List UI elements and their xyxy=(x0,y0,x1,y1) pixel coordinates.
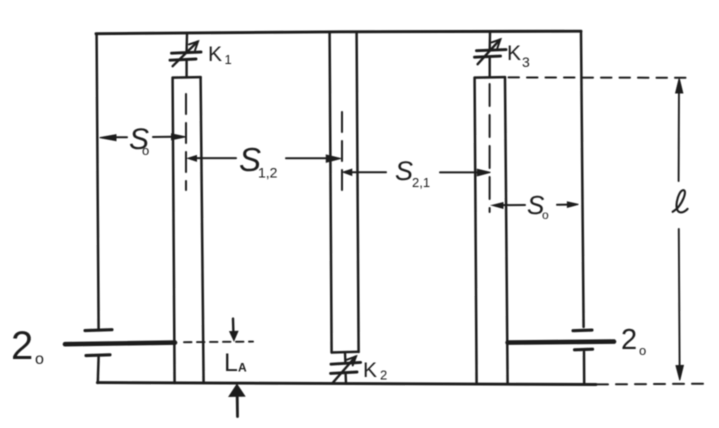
input tap dashed line through resonator 1 xyxy=(184,341,253,344)
svg-text:K: K xyxy=(507,42,521,65)
S0 right label xyxy=(527,190,549,222)
svg-text:o: o xyxy=(35,351,44,368)
dimension S2,1 xyxy=(343,169,490,176)
resonator 3 bar xyxy=(475,77,508,383)
K3 label xyxy=(507,42,530,70)
svg-text:2: 2 xyxy=(380,368,387,383)
dimension S1,2 xyxy=(188,155,341,162)
dimension l (resonator length) upper arrow xyxy=(676,78,683,181)
svg-text:1,2: 1,2 xyxy=(258,165,278,181)
resonator 1 center line (dashed) xyxy=(185,94,187,190)
resonator 2 bar xyxy=(330,32,359,352)
Z0 label (left) xyxy=(11,324,44,368)
trimmer capacitor K1 xyxy=(170,34,201,78)
dimension S0 (left) xyxy=(100,134,186,141)
resonator 1 bar xyxy=(173,77,204,383)
dimension l lower arrow xyxy=(676,229,683,380)
K1 label xyxy=(208,43,232,67)
svg-text:K: K xyxy=(208,43,222,66)
K2 label xyxy=(363,359,387,383)
input source upper plate xyxy=(85,328,112,332)
Z0 label (right) xyxy=(621,324,646,358)
input feed line (thick) xyxy=(65,343,175,345)
svg-text:S: S xyxy=(395,156,413,186)
S1,2 label xyxy=(239,141,278,181)
trimmer capacitor K3 xyxy=(475,33,507,77)
tap height dimension: up arrow below wall xyxy=(229,385,244,417)
svg-text:2: 2 xyxy=(621,324,637,356)
l label (script ell) xyxy=(673,190,688,212)
enclosure left wall lower stub xyxy=(97,357,100,383)
enclosure bottom wall xyxy=(97,383,596,385)
output source upper plate xyxy=(573,329,592,333)
svg-text:L: L xyxy=(224,349,238,377)
svg-text:2: 2 xyxy=(11,324,33,368)
enclosure top wall xyxy=(96,31,581,34)
bottom reference dashed line xyxy=(597,383,704,386)
S0 left label xyxy=(129,123,149,158)
output source lower plate xyxy=(575,348,593,352)
enclosure right wall xyxy=(581,31,584,327)
trimmer capacitor K2 xyxy=(331,353,361,384)
svg-text:3: 3 xyxy=(522,54,530,70)
enclosure right wall lower stub xyxy=(583,352,586,384)
tap height dimension: down arrow xyxy=(230,319,238,341)
svg-text:1: 1 xyxy=(225,52,232,67)
svg-text:o: o xyxy=(639,343,646,358)
output feed line (thick) xyxy=(508,342,614,343)
dimension S0 (right) xyxy=(492,202,578,208)
enclosure left wall xyxy=(97,34,99,330)
S2,1 label xyxy=(395,156,430,190)
resonator 3 center line (dashed) xyxy=(489,84,491,212)
svg-text:o: o xyxy=(142,143,149,158)
input source lower plate xyxy=(86,353,110,357)
svg-text:o: o xyxy=(542,208,549,222)
svg-text:K: K xyxy=(363,359,377,382)
resonator 2 center line (dashed) xyxy=(341,112,343,198)
top reference dashed line (resonator top) xyxy=(509,76,691,78)
tap height label LA xyxy=(224,349,247,377)
svg-text:A: A xyxy=(238,361,247,375)
svg-text:2,1: 2,1 xyxy=(412,175,430,190)
